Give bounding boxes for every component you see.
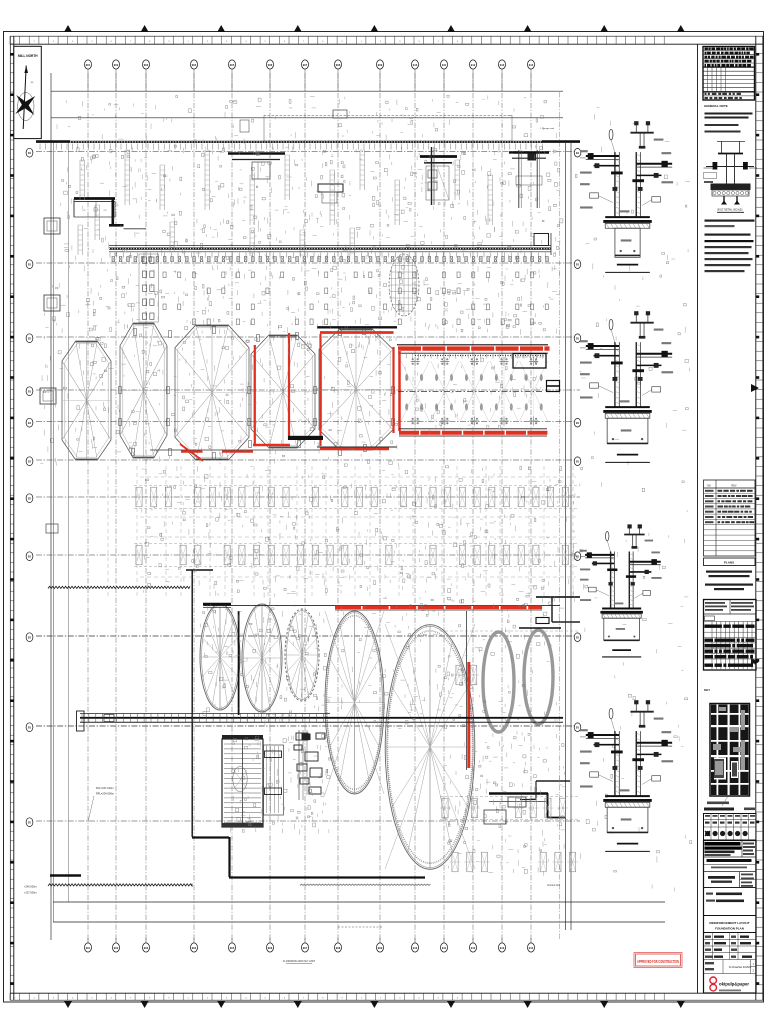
strip anchor detail [704,141,758,212]
grid bubbles left column [26,148,33,826]
large basin with red outline [397,345,560,436]
pile field dashed outlines [134,486,578,567]
long pile wall bundle [109,233,551,262]
hatched sphere symbol [389,254,419,316]
key plan captions [704,802,755,811]
svg-text:+227.000m: +227.000m [24,892,37,895]
svg-text:E07: E07 [303,947,308,950]
grid bubbles right column [574,148,581,731]
project name box [704,872,757,888]
svg-text:E05: E05 [230,947,235,950]
sheet title box [704,916,757,933]
svg-text:+240.000m: +240.000m [24,886,37,889]
small pile marks in cell band [118,327,394,460]
fine plan texture marks [40,95,691,891]
revision table [704,480,756,556]
svg-text:E14: E14 [529,947,534,950]
left margin pit boxes [40,218,60,533]
svg-text:E04: E04 [192,64,197,67]
company header block [704,841,757,994]
svg-text:E12: E12 [471,947,476,950]
digester cells with X bracing [62,323,393,460]
foundation detail 3 [580,525,662,657]
fold triangles top [64,25,685,32]
lower right steps [484,781,570,824]
svg-text:E13: E13 [500,947,505,950]
grid bubbles top row E01-E14 [85,60,535,91]
hatch fringe ticks under walls [40,144,545,359]
svg-text:E14: E14 [529,64,534,67]
signature table [704,814,757,841]
svg-text:E07: E07 [303,64,308,67]
foundation detail 4 [580,701,673,852]
column grid vertical lines [88,73,560,940]
red wall highlights mid band [150,327,397,461]
svg-text:E08: E08 [336,64,341,67]
stepped wall block upper left [74,199,146,229]
mid-left equipment blocks [228,110,347,203]
svg-text:FOUNDATION PLAN: FOUNDATION PLAN [715,927,744,931]
svg-text:E03: E03 [144,64,149,67]
drawing index table [703,47,755,101]
foundation detail 2 [580,312,673,463]
left pile column pair [139,254,159,322]
svg-text:E13: E13 [500,64,505,67]
PLANS cell [704,558,756,566]
fold triangles bottom [64,1001,685,1008]
client block [704,888,757,903]
pile cap field rows [108,466,576,596]
svg-text:APPROVED FOR CONSTRUCTION: APPROVED FOR CONSTRUCTION [637,959,679,964]
general notes text [704,104,753,133]
svg-text:E01: E01 [86,64,91,67]
excavation zigzag boundary [24,570,431,895]
svg-text:E11: E11 [442,64,447,67]
svg-text:E03: E03 [144,947,149,950]
plan outline top lines [51,73,563,940]
svg-text:45°: 45° [31,82,34,84]
row grid horizontal lines [36,152,580,822]
svg-text:1 Storage tank: 1 Storage tank [540,127,555,130]
misc dark blocks mid right [519,597,580,628]
red wall lower: horizontal over clarifier row [204,606,560,610]
legend matrix table [704,600,757,671]
svg-text:E09: E09 [378,947,383,950]
svg-text:E10: E10 [413,947,418,950]
svg-text:IG DrawSet 40x60x: IG DrawSet 40x60x [729,965,752,969]
red wall vertical lower [467,611,469,770]
lower pile rows right [440,631,579,872]
svg-text:E05: E05 [230,64,235,67]
svg-text:okipulp&paper: okipulp&paper [719,982,749,987]
title strip panel borders [697,44,699,993]
svg-text:E02: E02 [114,64,119,67]
svg-text:E04: E04 [192,947,197,950]
key plan mini map [710,704,750,807]
svg-text:E11: E11 [442,947,447,950]
svg-text:FFL=227.010m: FFL=227.010m [96,786,114,790]
svg-text:E08: E08 [336,947,341,950]
svg-text:KEY: KEY [704,688,710,692]
top wall W1 dotted [36,141,580,143]
upper-left ladder clutter [78,150,493,256]
sheet bottom long lines [53,884,665,964]
svg-text:PLANS: PLANS [724,561,734,565]
north arrow box [14,46,42,138]
foundation detail 1 [580,122,673,273]
plans paragraph [705,571,753,591]
svg-text:GENERAL NOTE: GENERAL NOTE [704,104,728,108]
svg-text:E12: E12 [471,64,476,67]
strip notes paragraph [705,220,755,273]
drawing info table [704,933,757,974]
conveyor gallery [77,711,564,731]
svg-text:E01: E01 [86,947,91,950]
pile mark rows below wall bundle [163,272,548,325]
annex channels [264,745,284,815]
svg-text:E02: E02 [114,947,119,950]
svg-text:REINFORCEMENT LAYOUT: REINFORCEMENT LAYOUT [709,921,749,925]
svg-text:IG DRAWING AND KEY LIMIT: IG DRAWING AND KEY LIMIT [283,960,316,963]
thick grey ellipses [483,630,553,732]
svg-text:E09: E09 [378,64,383,67]
svg-text:BOLT DETAIL (SCALE): BOLT DETAIL (SCALE) [718,209,743,212]
circular tanks (ellipses) [200,604,475,869]
top right equipment block [509,150,549,208]
screening building [222,735,263,828]
svg-text:E06: E06 [268,947,273,950]
plan right boundary [566,143,572,930]
svg-text:MILL NORTH: MILL NORTH [18,54,38,58]
pump equipment cluster [294,730,325,800]
black bar over tanks [203,604,239,715]
svg-text:NO: NO [707,485,711,488]
svg-text:E06: E06 [268,64,273,67]
svg-text:REV: REV [732,485,737,488]
top centre equipment block [420,147,457,205]
svg-text:RFL=234.000m: RFL=234.000m [96,792,114,796]
grid bubbles bottom row E01-E14 [85,938,535,952]
company logo [710,977,750,991]
svg-text:Contour limit: Contour limit [547,884,560,887]
svg-text:E10: E10 [413,64,418,67]
approved stamp [634,953,682,968]
